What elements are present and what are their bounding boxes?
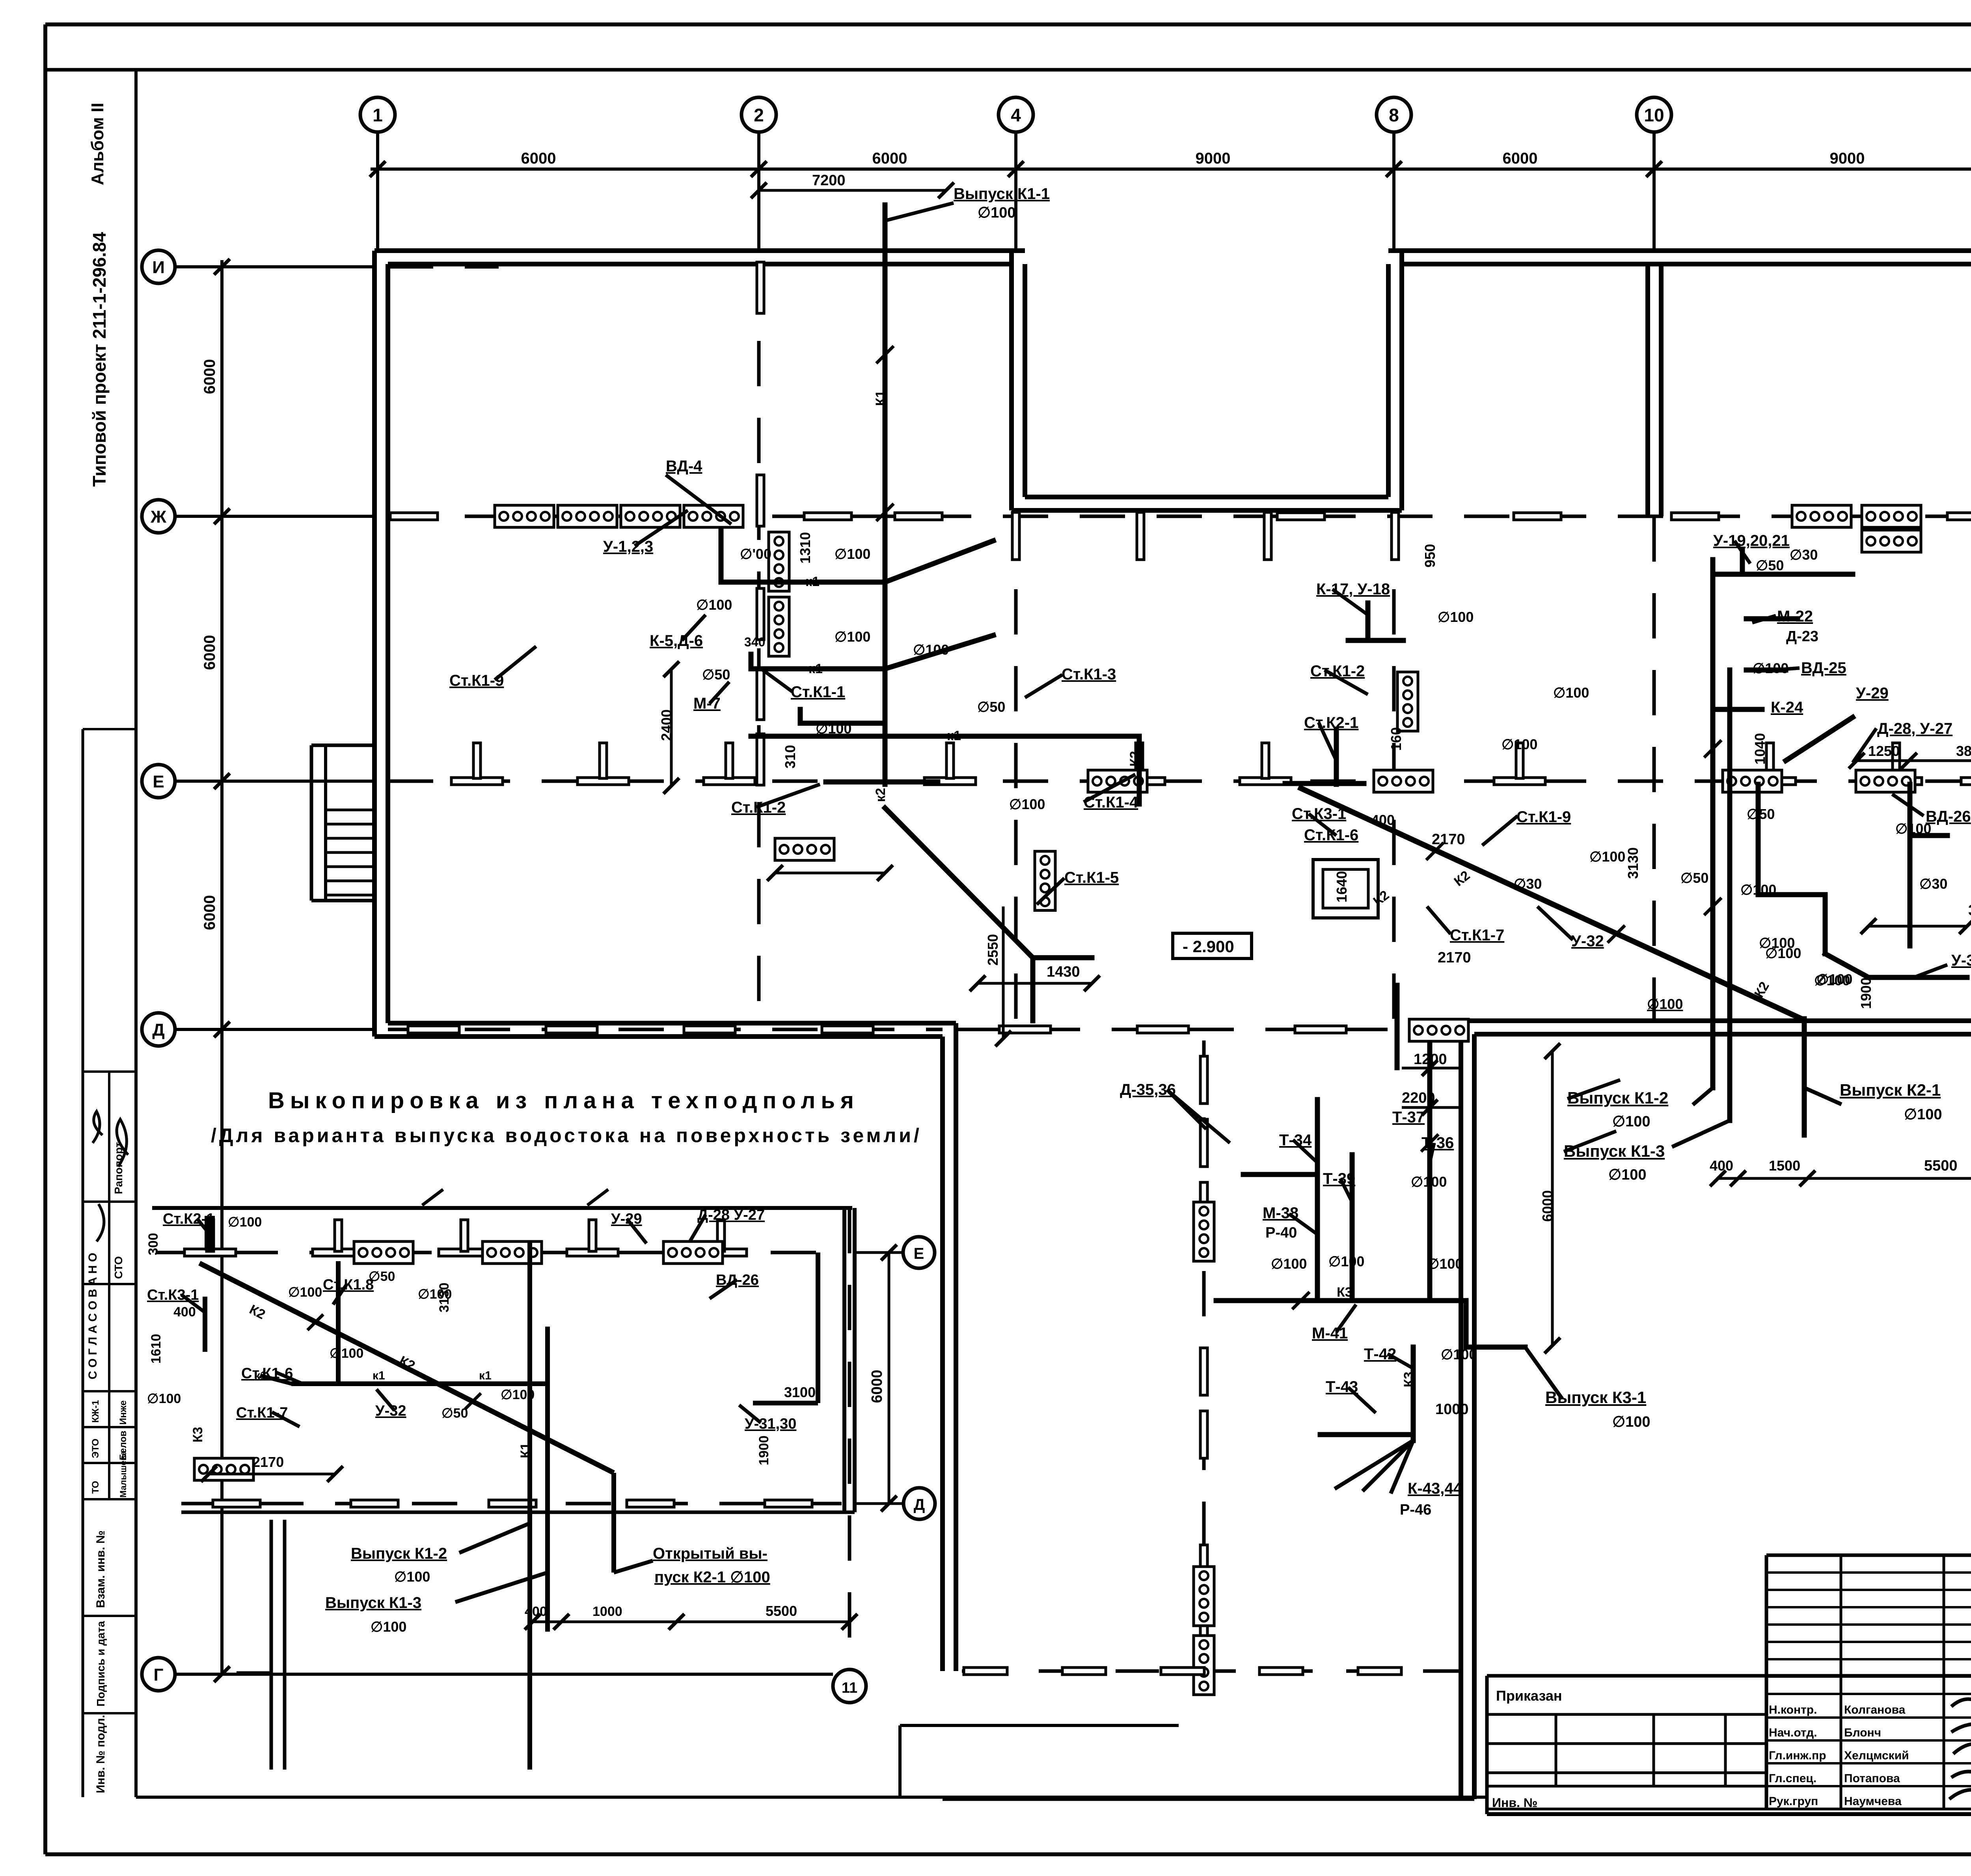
pipe K2 main diagonal [1301,788,1801,1019]
svg-text:М-38: М-38 [1263,1204,1298,1222]
excerpt pipe slash [307,1314,323,1330]
svg-text:Колганова: Колганова [1844,1703,1906,1716]
dim line 1200 [1402,1067,1459,1070]
svg-text:Ст.К2-1: Ст.К2-1 [163,1211,214,1227]
outer border left [43,24,47,1854]
dim line 1700 [775,872,885,875]
E axis wall tick [1494,778,1545,785]
svg-text:1640: 1640 [1334,871,1350,903]
pipe on E axis center [1285,781,1364,786]
pipe slash tick [876,504,894,521]
sign table row [1766,1785,1971,1787]
excerpt dim 6000 line [888,1253,890,1504]
leader line [1169,1092,1206,1129]
left dimension line [220,260,224,1029]
stair annex outline [310,745,313,901]
wing axis column [1200,1119,1207,1167]
axis line И stub [175,265,374,268]
svg-text:К3: К3 [1401,1372,1416,1387]
trident line 3 [1392,1440,1413,1492]
stamp divider [83,1070,136,1073]
axis2 pilaster [757,475,764,526]
excerpt E axis column [207,1220,214,1251]
foundation block Zh right3 [1862,530,1921,552]
svg-text:ЭТО: ЭТО [90,1439,101,1458]
excerpt D axis tick [489,1500,536,1507]
svg-text:ВД-4: ВД-4 [666,458,702,475]
svg-text:∅100: ∅100 [288,1285,322,1300]
leader line [1752,616,1776,623]
outer border top [45,22,1971,26]
svg-text:2170: 2170 [1438,949,1471,966]
svg-text:∅50: ∅50 [1680,870,1708,886]
svg-text:6000: 6000 [1503,150,1538,167]
dim line 2200 [1402,1106,1459,1109]
excerpt lower wall outer [270,1520,273,1770]
svg-text:∅100: ∅100 [1328,1253,1364,1269]
leader line [1734,541,1750,564]
axis10 wall outer [1645,264,1650,516]
excerpt K2 drop [611,1473,616,1573]
pipe drop to St K1-4 [1137,736,1142,804]
pipe K2 drop [1802,1019,1807,1135]
pipe U-31 branch [1869,975,1967,980]
svg-text:ВД-25: ВД-25 [1801,659,1846,677]
excerpt E axis tick [567,1249,618,1256]
svg-text:Инже: Инже [118,1400,129,1425]
pipe K-17 stub [1366,603,1371,640]
excerpt E axis column [335,1220,342,1251]
svg-text:Хелцмский: Хелцмский [1844,1749,1909,1762]
svg-text:400: 400 [173,1305,196,1320]
stamp divider [83,1426,136,1428]
grid bubble 11 excerpt [833,1669,866,1703]
bottom wall R inner [1461,1018,1971,1023]
svg-text:∅100: ∅100 [1612,1414,1651,1430]
courtyard right inner [1386,264,1391,497]
svg-text:Выпуск К1-2: Выпуск К1-2 [1567,1089,1668,1107]
svg-text:5500: 5500 [766,1603,797,1619]
svg-text:∅100: ∅100 [1612,1113,1651,1130]
excerpt leader [181,1295,205,1312]
svg-text:1900: 1900 [756,1435,771,1465]
axis Zh dashed [388,515,1971,518]
dim tick [214,1666,230,1682]
dim tick [214,1022,230,1037]
excerpt E axis tick [695,1249,747,1256]
excerpt foundation lower [194,1458,253,1480]
pipe slash tick [1704,740,1721,757]
grid bubble Д [142,1013,175,1046]
dim line 2400 [670,669,673,786]
excerpt E axis tick [439,1249,490,1256]
svg-text:∅100: ∅100 [1904,1106,1942,1123]
excerpt dim 400-1000-5500 [533,1621,850,1623]
svg-text:6000: 6000 [521,150,556,167]
wing axis column [1200,1056,1207,1104]
prikazan col line [1555,1714,1557,1786]
E axis wall tick [1240,778,1291,785]
stamp divider [83,1498,136,1500]
svg-text:∅100: ∅100 [228,1215,262,1230]
center found box [1397,672,1418,731]
foundation on E axis 4 [1856,770,1915,792]
svg-text:∅100: ∅100 [1740,882,1776,898]
column stub below courtyard [1137,512,1144,560]
axis2 pilaster [757,734,764,785]
Zh axis wall tick [1514,513,1561,520]
excerpt branch right [753,1401,818,1405]
top wall R inner [1402,262,1971,266]
pipe T-34 branch [1243,1172,1317,1177]
axis I dash inside [388,265,499,269]
stamp column right line [134,70,138,1797]
E axis column [1893,743,1900,778]
change table row [1766,1623,1971,1626]
dim tick [1008,161,1024,177]
leader line [495,646,536,680]
axis line Г stub [175,1673,374,1676]
Zh axis wall tick [1671,513,1719,520]
excerpt foundation 2 [483,1241,542,1264]
svg-text:к1: к1 [254,1369,267,1382]
E axis column [1262,743,1269,778]
excerpt leader [197,1219,213,1238]
svg-text:∅100: ∅100 [1438,609,1474,625]
dim tick [214,259,230,275]
pipe slash tick [1704,898,1721,915]
excerpt wall pier [205,1216,215,1251]
svg-text:Гл.спец.: Гл.спец. [1769,1772,1816,1785]
svg-text:М-41: М-41 [1312,1325,1348,1342]
excerpt foundation 1 [354,1241,413,1264]
leader line [1430,1143,1434,1163]
svg-text:∅100: ∅100 [696,597,732,613]
svg-text:∅100: ∅100 [1441,1346,1477,1362]
svg-text:Приказан: Приказан [1496,1688,1562,1704]
svg-text:6000: 6000 [201,895,218,930]
leader line [756,784,820,807]
svg-text:Д-28, У-27: Д-28, У-27 [1877,720,1952,737]
svg-text:5500: 5500 [1924,1158,1958,1174]
pipe T-37 riser K3 [1427,1044,1433,1301]
svg-text:СТО: СТО [112,1256,125,1279]
leader otkryty vypusk [614,1561,653,1573]
svg-text:1900: 1900 [1858,977,1874,1009]
svg-text:Альбом II: Альбом II [88,103,107,185]
D axis wall tick [546,1026,597,1033]
axis line Е stub [175,780,374,783]
svg-text:Д: Д [914,1496,925,1513]
change table row [1766,1658,1971,1660]
prikazan row line [1487,1713,1766,1716]
svg-text:∅100: ∅100 [501,1387,535,1402]
stamp inner vertical [108,1072,110,1499]
stair tread [326,823,374,826]
D axis wall tick [1295,1026,1346,1033]
svg-text:∅100: ∅100 [1589,849,1625,865]
svg-text:4: 4 [1011,105,1021,125]
svg-text:∅100: ∅100 [1765,945,1801,961]
excerpt riser K1 long [527,1241,532,1770]
svg-text:∅50: ∅50 [1756,557,1784,573]
prikazan box top / middle line [1487,1674,1971,1678]
svg-text:Гл.инж.пр: Гл.инж.пр [1769,1749,1826,1762]
excerpt axis D dashed [181,1502,844,1506]
svg-text:к1: к1 [947,728,961,743]
svg-text:310: 310 [782,745,798,769]
pipe K1 riser right 2 [1727,670,1733,1120]
left dimension line lower [220,1029,224,1674]
svg-text:Ст.К1-6: Ст.К1-6 [241,1365,293,1382]
leader line [1025,675,1062,698]
svg-text:∅100: ∅100 [978,205,1016,221]
svg-text:Ж: Ж [150,507,166,527]
wing bottom tick [1259,1668,1303,1675]
svg-text:∅100: ∅100 [1502,736,1537,752]
courtyard bottom outer [1012,508,1402,513]
axis line Д stub [175,1028,374,1031]
courtyard left inner [1023,264,1027,497]
svg-text:∅100: ∅100 [1814,972,1850,988]
svg-text:Ст.К1-6: Ст.К1-6 [1304,826,1358,844]
svg-text:Подпись и дата: Подпись и дата [95,1621,107,1707]
svg-text:К1: К1 [518,1442,533,1458]
title block bottom [1487,1812,1971,1816]
axis E dashed [388,780,1971,783]
svg-text:1610: 1610 [149,1334,164,1364]
pipe stub [749,654,754,669]
grid bubble Ж [142,500,175,533]
dim line 2550 [1002,906,1005,1038]
svg-text:11: 11 [842,1680,857,1696]
grid bubble 2 [741,97,776,132]
leader line [710,682,729,703]
leader line [1289,1214,1317,1234]
top wall L inner [388,262,1012,266]
Zh axis wall tick [390,513,438,520]
excerpt E axis column [589,1220,596,1251]
leader line [1853,728,1876,763]
svg-text:1040: 1040 [1752,733,1768,765]
svg-text:∅100: ∅100 [147,1391,181,1406]
svg-text:ВД-26: ВД-26 [1926,808,1971,825]
excerpt St K3 stub [203,1297,207,1352]
column stub below courtyard [1392,512,1399,560]
excerpt foundation 3 [663,1241,723,1264]
pipe K3 main horizontal [1216,1298,1466,1303]
svg-text:Инв. № подл.: Инв. № подл. [94,1715,107,1793]
svg-text:Р-46: Р-46 [1400,1502,1431,1518]
axis line 2 upper [757,132,760,252]
wing bottom tick [1062,1668,1106,1675]
svg-text:Ст.К1-1: Ст.К1-1 [791,683,845,701]
foundation on E axis 2 [1374,770,1433,792]
pipe on E axis [826,780,938,785]
pipe U-29 diagonal [1786,717,1853,761]
dim line 3160 [1869,925,1967,928]
excerpt K2 diagonal [199,1263,614,1473]
pipe M-22 branch [1746,616,1798,622]
excerpt leader [272,1412,300,1427]
column stub below courtyard [1264,512,1271,560]
svg-text:К3: К3 [190,1427,205,1442]
excerpt leader [276,1372,304,1384]
leader line [1427,906,1451,934]
svg-text:У-19,20,21: У-19,20,21 [1713,532,1790,549]
pipe drop [1030,958,1036,1021]
grid bubble 4 [999,97,1033,132]
svg-text:3850: 3850 [1956,743,1971,759]
stair tread [326,880,374,882]
excerpt leader [710,1280,737,1299]
svg-text:∅100: ∅100 [371,1619,406,1635]
sign table row [1766,1739,1971,1742]
grid bubble 8 [1377,97,1411,132]
pipe K2 riser [1334,729,1339,784]
foundation on bottom wall [1409,1019,1468,1041]
dim tick [751,161,767,177]
svg-text:1000: 1000 [1435,1401,1469,1418]
pipe T-34 riser [1315,1100,1320,1301]
leader line [682,615,706,640]
svg-text:∅50: ∅50 [369,1269,395,1284]
svg-text:Ст.К1-7: Ст.К1-7 [1450,927,1504,944]
svg-text:Д: Д [152,1020,164,1040]
pipe Zh right branch [1713,572,1853,577]
leader vypusk K1-2 [459,1523,530,1553]
wing bottom tick [1358,1668,1401,1675]
wing foundation box3 [1194,1636,1214,1695]
svg-text:∅50: ∅50 [702,666,730,683]
wing axis dashed [1202,1040,1206,1667]
change table row [1766,1675,1971,1678]
axis 8 dashed [1392,512,1396,1021]
svg-text:∅100: ∅100 [330,1346,363,1361]
stair tread [326,837,374,840]
pipe slash tick [1426,843,1444,860]
svg-text:У-32: У-32 [1571,932,1604,950]
E axis wall tick [1870,778,1922,785]
wing bottom line [943,1798,1474,1801]
svg-text:∅30: ∅30 [1790,547,1818,563]
wing lower step vertical [898,1725,902,1797]
svg-text:Открытый вы-: Открытый вы- [653,1545,768,1562]
pipe K1 branch Zh [721,580,885,585]
outer border bottom [45,1852,1971,1856]
svg-text:Потапова: Потапова [1844,1772,1900,1785]
stamp divider [83,1283,136,1285]
svg-text:3130: 3130 [437,1282,452,1312]
wing axis column [1200,1348,1207,1395]
change table row [1766,1589,1971,1591]
dim line 400-1500-5500 [1718,1177,1971,1180]
svg-text:∅100: ∅100 [1647,996,1683,1012]
wing left outer [940,1037,945,1671]
E axis column [600,743,607,778]
stair tread [326,865,374,868]
foundation on E axis [1088,770,1147,792]
leader line [1537,906,1573,940]
excerpt D axis tick [351,1500,398,1507]
svg-text:Ст.К1-5: Ст.К1-5 [1064,869,1119,886]
pipe stub crossing bottom wall [1395,985,1400,1068]
row line [1487,1742,1766,1745]
excerpt D axis tick [213,1500,260,1507]
leader to Vypusk K1-3 [1674,1120,1730,1146]
wing axis column [1200,1600,1207,1647]
stair tread [326,851,374,854]
dim tick [214,773,230,789]
svg-text:к1: к1 [805,574,820,589]
D axis wall tick [684,1026,735,1033]
foundation block on Zh axis [558,505,617,527]
grid bubble Г [142,1658,175,1691]
svg-text:300: 300 [146,1233,161,1255]
pipe K1 riser right [1710,560,1716,1088]
svg-text:1250: 1250 [1868,743,1900,759]
excerpt riser right [816,1253,820,1403]
svg-text:Т-39: Т-39 [1323,1170,1355,1187]
stair tread [326,894,374,897]
svg-text:∅100: ∅100 [1271,1256,1307,1272]
prikazan col line [1652,1714,1655,1786]
pipe U-123 vertical [719,531,724,582]
D axis wall tick [822,1026,873,1033]
leader line [1167,1090,1230,1143]
dim line 1430 [978,982,1092,985]
svg-text:∅'00: ∅'00 [740,546,771,562]
leader line [1482,816,1518,845]
stamp divider [83,1390,136,1392]
svg-text:400: 400 [1371,812,1395,828]
E axis wall tick [1961,778,1971,785]
change table row [1766,1693,1971,1695]
foundation on E axis 3 [1723,770,1782,792]
svg-text:3160: 3160 [1968,902,1971,919]
svg-text:Нач.отд.: Нач.отд. [1769,1726,1817,1739]
pipe K1 horizontal lower [751,734,1139,739]
bottom wall L inner [388,1021,956,1025]
axis2 column under top wall [757,262,764,313]
E axis column [946,743,954,778]
excerpt riser K1 second [545,1327,550,1632]
pipe leader d100 2 [885,635,993,669]
E axis wall tick [924,778,976,785]
wing foundation box2 [1194,1567,1214,1626]
axis 2 dashed [757,264,761,1021]
title block top [1766,1554,1971,1557]
leader line [763,670,792,692]
dim tick [370,161,386,177]
stair tread [326,809,374,811]
pipe slash tick [1421,1134,1438,1152]
svg-text:∅50: ∅50 [977,699,1005,715]
pipe K3 exit [1466,1345,1525,1350]
foundation block on Zh axis [621,505,680,527]
pipe VD-26 branch [1910,833,1947,838]
leader line [885,203,954,221]
svg-text:∅30: ∅30 [1514,876,1542,892]
foundation block Zh right [1792,505,1851,527]
pipe K-17 branch [1348,638,1403,643]
pipe K-24 branch [1713,707,1762,712]
stamp divider [83,728,136,730]
axis D dashed [388,1028,943,1031]
grid bubble E excerpt [903,1237,935,1268]
excerpt lower wall inner [283,1520,287,1770]
G axis line to 11 [175,1673,833,1676]
